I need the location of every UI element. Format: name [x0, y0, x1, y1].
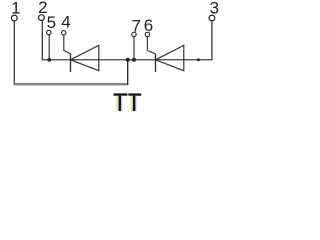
junction node pin5/axis [47, 58, 51, 62]
svg-text:4: 4 [61, 13, 70, 32]
svg-text:5: 5 [47, 13, 56, 32]
wire pin6 gate lead [147, 37, 155, 54]
wire bus riser [127, 60, 129, 85]
wire bottom bus [14, 83, 128, 85]
terminal 5 circle [47, 30, 51, 34]
svg-text:1: 1 [11, 0, 20, 18]
thyristor V2 triangle [156, 45, 184, 70]
baseplate terminal T right [128, 93, 141, 111]
terminal 4 circle [62, 31, 66, 35]
svg-text:6: 6 [144, 16, 153, 35]
terminal 6 circle [145, 32, 149, 36]
wire pin1 down [13, 21, 15, 84]
wire main axis [42, 59, 213, 61]
junction node on axis near pin3 [197, 58, 200, 61]
wire pin7 down [133, 37, 135, 60]
terminal 2 circle [39, 15, 45, 21]
terminal 7 circle [132, 32, 136, 36]
terminal 1 circle [11, 15, 17, 21]
junction node bus riser/axis [126, 58, 130, 62]
thyristor V1 cathode bar [70, 54, 72, 72]
thyristor V2 cathode bar [155, 54, 157, 72]
wire pin3 down [211, 21, 213, 60]
wire pin4 gate lead [64, 35, 71, 54]
baseplate terminal T left [114, 93, 128, 111]
thyristor V1 triangle [71, 45, 99, 70]
terminal 3 circle [209, 15, 215, 21]
junction node pin7/axis [132, 58, 136, 62]
wire pin2 down [41, 20, 43, 59]
wire pin5 down [48, 35, 50, 60]
